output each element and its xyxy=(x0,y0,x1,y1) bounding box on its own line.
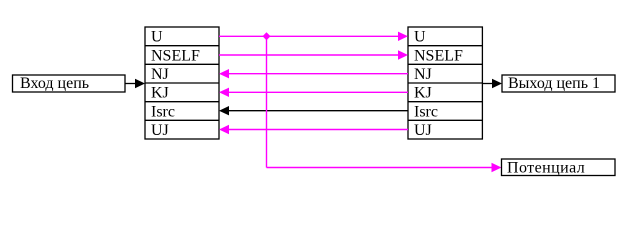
wire potential branch horizontal segment xyxy=(267,167,494,169)
svg-text:U: U xyxy=(151,29,163,46)
svg-text:Isrc: Isrc xyxy=(414,103,438,120)
wire input to left block xyxy=(125,83,137,85)
svg-text:NJ: NJ xyxy=(151,66,169,83)
right block U2 frame xyxy=(408,27,482,139)
arrowhead into left block pin Isrc xyxy=(219,106,229,115)
potential probe box "Потенциал" xyxy=(502,159,616,176)
wire right block to output box xyxy=(482,83,494,85)
svg-text:U: U xyxy=(414,29,426,46)
junction node on wire U xyxy=(263,32,271,40)
svg-text:UJ: UJ xyxy=(414,122,432,139)
svg-text:Вход цепь: Вход цепь xyxy=(20,75,89,92)
svg-text:NSELF: NSELF xyxy=(414,47,463,64)
svg-text:KJ: KJ xyxy=(414,85,432,102)
output port box "Выход цепь 1" xyxy=(502,75,615,92)
arrowhead into left block pin UJ xyxy=(219,125,229,134)
svg-text:KJ: KJ xyxy=(151,85,169,102)
wire UJ: right block to left block xyxy=(228,129,408,131)
wire U: left block to right block xyxy=(219,35,399,37)
svg-text:Выход цепь 1: Выход цепь 1 xyxy=(508,75,600,92)
left block row separators xyxy=(145,46,219,121)
svg-text:NSELF: NSELF xyxy=(151,47,200,64)
arrowhead into output box xyxy=(492,79,502,88)
arrowhead into right block pin U xyxy=(398,32,408,41)
arrowhead into right block pin NSELF xyxy=(398,50,408,59)
arrowhead into left block pin KJ xyxy=(219,88,229,97)
arrowhead into potential box xyxy=(492,163,502,172)
svg-text:NJ: NJ xyxy=(414,66,432,83)
svg-text:UJ: UJ xyxy=(151,122,169,139)
right block row separators xyxy=(408,46,482,121)
svg-text:Isrc: Isrc xyxy=(151,103,175,120)
arrowhead into left block pin NJ xyxy=(219,69,229,78)
arrowhead into left block pin row KJ/NJ xyxy=(135,79,145,88)
svg-text:Потенциал: Потенциал xyxy=(507,159,585,176)
wire potential branch vertical segment xyxy=(266,36,268,167)
wire Isrc: right block to left block xyxy=(228,110,408,112)
wire KJ: right block to left block xyxy=(228,91,408,93)
input port box "Вход цепь" xyxy=(13,75,126,92)
wire NJ: right block to left block xyxy=(228,73,408,75)
wire NSELF: left block to right block xyxy=(219,54,399,56)
left block U1 frame xyxy=(145,27,219,139)
